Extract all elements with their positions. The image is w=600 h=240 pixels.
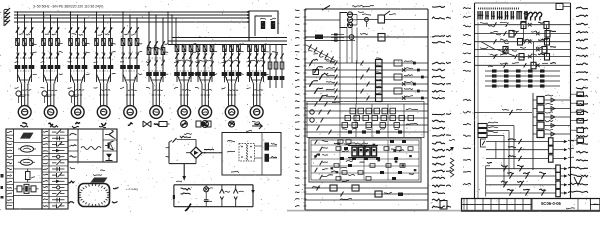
svg-text:+ A rearg: + A rearg xyxy=(126,187,138,191)
svg-text:3~50 50Hz ~3/N·PE 380/220 220: 3~50 50Hz ~3/N·PE 380/220 220 110 36 24(… xyxy=(33,5,103,9)
svg-text:5С06-0-06: 5С06-0-06 xyxy=(541,201,561,206)
